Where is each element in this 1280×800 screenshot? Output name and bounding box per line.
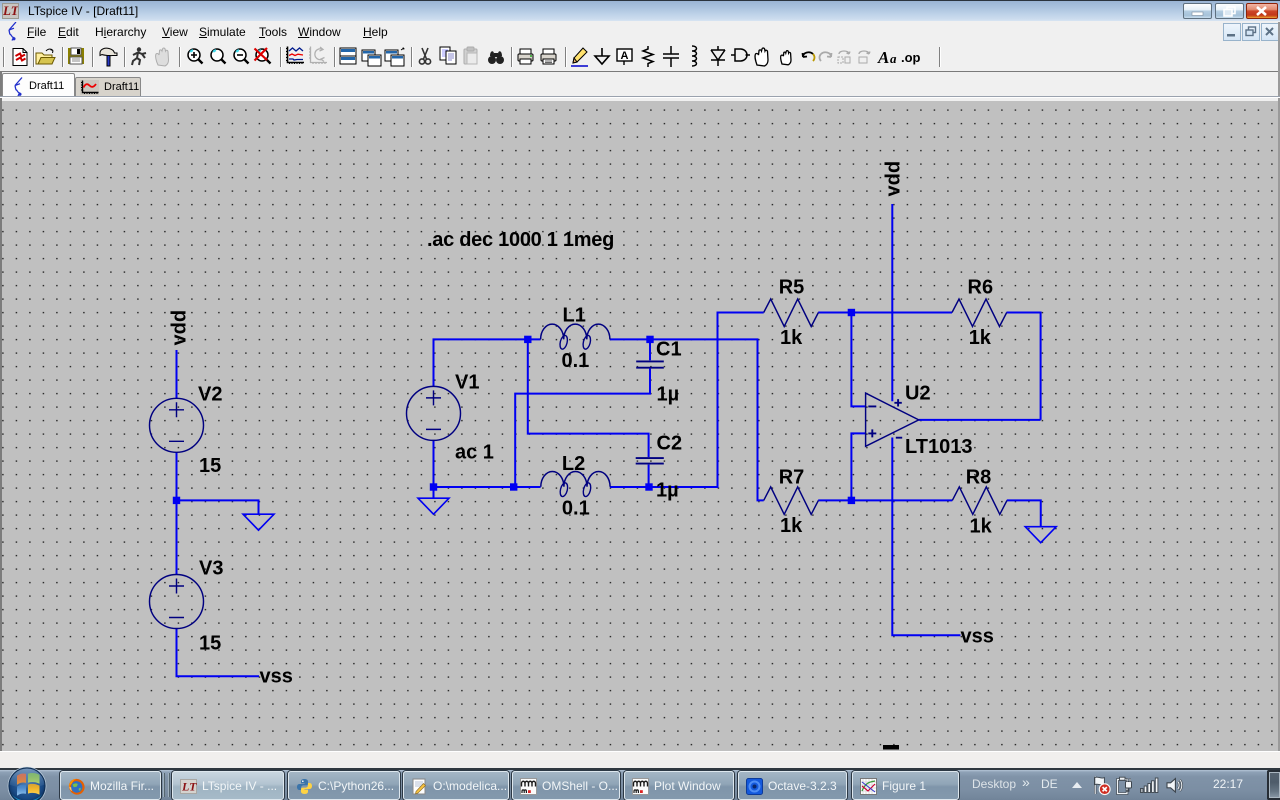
svg-text:vdd: vdd: [882, 161, 904, 197]
svg-text:1µ: 1µ: [656, 479, 679, 501]
svg-text:U2: U2: [905, 382, 931, 404]
svg-text:LT1013: LT1013: [905, 436, 972, 458]
svg-text:1k: 1k: [969, 327, 992, 349]
svg-text:R7: R7: [779, 466, 805, 488]
svg-text:ac 1: ac 1: [455, 441, 494, 463]
svg-text:1µ: 1µ: [657, 384, 680, 406]
svg-text:vdd: vdd: [168, 310, 190, 346]
svg-text:15: 15: [199, 633, 221, 655]
svg-text:.ac dec 1000 1 1meg: .ac dec 1000 1 1meg: [427, 229, 614, 251]
svg-text:R6: R6: [968, 277, 994, 299]
svg-text:a: a: [890, 51, 897, 66]
svg-text:A: A: [877, 48, 889, 67]
svg-text:L1: L1: [563, 304, 586, 326]
svg-text:vss: vss: [260, 666, 293, 688]
svg-text:C1: C1: [656, 338, 682, 360]
svg-text:LT: LT: [3, 4, 18, 18]
svg-text:R5: R5: [779, 277, 805, 299]
svg-text:A: A: [621, 50, 629, 62]
svg-text:vss: vss: [961, 626, 994, 648]
svg-text:R8: R8: [966, 467, 992, 489]
svg-text:1k: 1k: [780, 327, 803, 349]
svg-text:1k: 1k: [970, 516, 993, 538]
svg-text:C2: C2: [657, 432, 683, 454]
svg-text:L2: L2: [562, 453, 585, 475]
svg-text:LT: LT: [181, 780, 197, 794]
svg-text:1k: 1k: [780, 515, 803, 537]
svg-text:0.1: 0.1: [562, 497, 590, 519]
svg-text:V3: V3: [199, 557, 223, 579]
svg-text:V2: V2: [198, 383, 222, 405]
svg-text:15: 15: [199, 455, 221, 477]
svg-text:V1: V1: [455, 371, 479, 393]
svg-text:.op: .op: [901, 50, 921, 65]
svg-text:0.1: 0.1: [562, 350, 590, 372]
